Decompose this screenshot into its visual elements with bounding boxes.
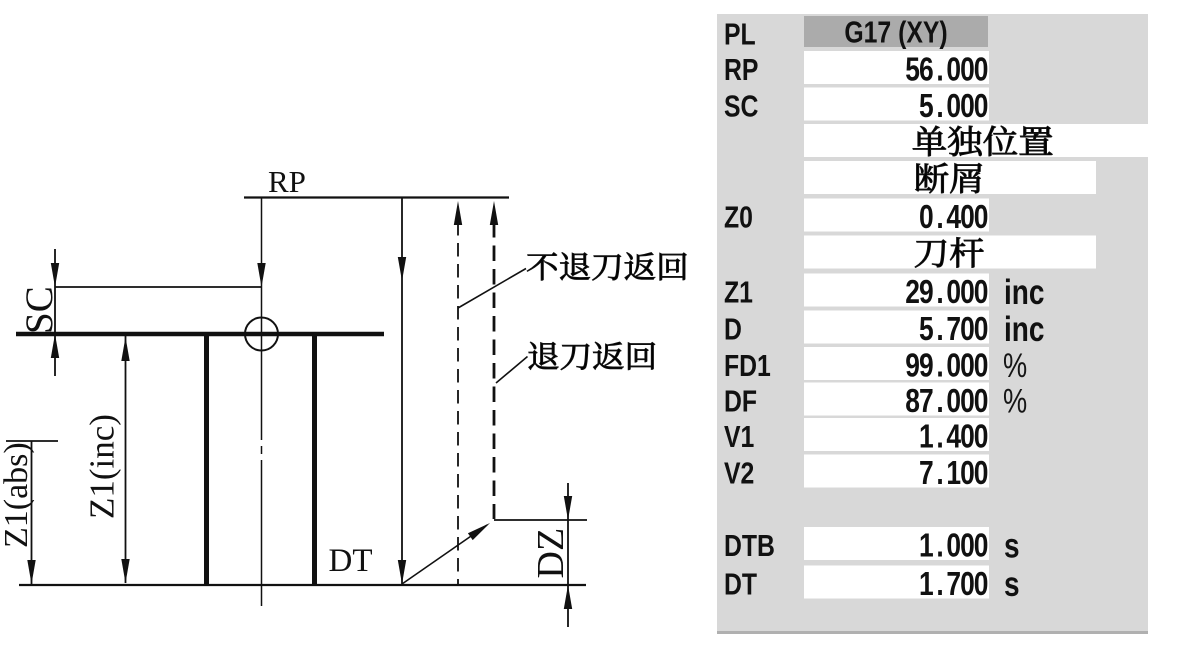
svg-text:SC: SC bbox=[724, 89, 758, 123]
svg-text:0: 0 bbox=[946, 52, 961, 88]
svg-text:0: 0 bbox=[974, 419, 989, 455]
svg-text:1: 1 bbox=[919, 419, 934, 455]
svg-text:9: 9 bbox=[905, 348, 920, 384]
svg-text:.: . bbox=[936, 311, 943, 347]
svg-text:4: 4 bbox=[946, 199, 961, 235]
svg-text:.: . bbox=[936, 566, 943, 602]
svg-text:0: 0 bbox=[960, 88, 975, 124]
svg-text:0: 0 bbox=[974, 528, 989, 564]
svg-text:0: 0 bbox=[946, 348, 961, 384]
svg-text:0: 0 bbox=[974, 274, 989, 310]
svg-text:8: 8 bbox=[905, 383, 920, 419]
svg-text:0: 0 bbox=[960, 528, 975, 564]
svg-text:0: 0 bbox=[960, 419, 975, 455]
svg-text:4: 4 bbox=[946, 419, 961, 455]
svg-text:0: 0 bbox=[960, 383, 975, 419]
svg-text:0: 0 bbox=[946, 274, 961, 310]
svg-text:9: 9 bbox=[919, 348, 934, 384]
svg-text:2: 2 bbox=[905, 274, 920, 310]
svg-text:DF: DF bbox=[724, 384, 757, 418]
svg-text:5: 5 bbox=[919, 311, 934, 347]
svg-text:0: 0 bbox=[960, 455, 975, 491]
svg-text:FD1: FD1 bbox=[724, 348, 771, 382]
svg-text:0: 0 bbox=[946, 528, 961, 564]
svg-text:PL: PL bbox=[724, 17, 756, 51]
svg-text:0: 0 bbox=[974, 566, 989, 602]
svg-text:5: 5 bbox=[905, 52, 920, 88]
svg-text:.: . bbox=[936, 348, 943, 384]
svg-text:0: 0 bbox=[974, 88, 989, 124]
svg-text:inc: inc bbox=[1004, 272, 1044, 312]
svg-text:V2: V2 bbox=[724, 456, 754, 490]
svg-text:7: 7 bbox=[946, 566, 961, 602]
svg-text:DTB: DTB bbox=[724, 528, 775, 562]
svg-text:0: 0 bbox=[919, 199, 934, 235]
svg-text:6: 6 bbox=[919, 52, 934, 88]
svg-text:RP: RP bbox=[724, 52, 758, 86]
svg-text:.: . bbox=[936, 419, 943, 455]
svg-text:inc: inc bbox=[1004, 309, 1044, 349]
svg-text:G17 (XY): G17 (XY) bbox=[844, 15, 947, 49]
svg-text:1: 1 bbox=[919, 566, 934, 602]
svg-text:7: 7 bbox=[946, 311, 961, 347]
svg-text:.: . bbox=[936, 52, 943, 88]
svg-text:DT: DT bbox=[724, 567, 757, 601]
svg-text:0: 0 bbox=[974, 348, 989, 384]
svg-text:0: 0 bbox=[974, 199, 989, 235]
svg-text:%: % bbox=[1003, 346, 1027, 385]
svg-text:DT: DT bbox=[329, 543, 373, 579]
svg-text:RP: RP bbox=[268, 164, 306, 199]
svg-text:.: . bbox=[936, 199, 943, 235]
svg-text:9: 9 bbox=[919, 274, 934, 310]
svg-text:Z0: Z0 bbox=[724, 200, 753, 234]
svg-text:D: D bbox=[724, 312, 742, 346]
svg-text:s: s bbox=[1004, 564, 1020, 604]
svg-text:.: . bbox=[936, 528, 943, 564]
svg-text:0: 0 bbox=[974, 311, 989, 347]
svg-text:0: 0 bbox=[960, 311, 975, 347]
svg-text:0: 0 bbox=[946, 88, 961, 124]
svg-text:0: 0 bbox=[946, 383, 961, 419]
svg-text:0: 0 bbox=[960, 52, 975, 88]
svg-text:0: 0 bbox=[974, 455, 989, 491]
svg-text:.: . bbox=[936, 88, 943, 124]
svg-text:0: 0 bbox=[960, 199, 975, 235]
svg-text:%: % bbox=[1003, 382, 1027, 421]
svg-text:Z1(inc): Z1(inc) bbox=[83, 414, 122, 519]
svg-text:0: 0 bbox=[974, 383, 989, 419]
svg-text:V1: V1 bbox=[724, 419, 754, 453]
svg-text:DZ: DZ bbox=[530, 528, 572, 579]
svg-text:Z1(abs): Z1(abs) bbox=[0, 442, 35, 548]
svg-text:.: . bbox=[936, 383, 943, 419]
svg-text:0: 0 bbox=[960, 348, 975, 384]
svg-text:1: 1 bbox=[946, 455, 961, 491]
svg-text:7: 7 bbox=[919, 455, 934, 491]
svg-text:.: . bbox=[936, 274, 943, 310]
svg-text:5: 5 bbox=[919, 88, 934, 124]
svg-text:s: s bbox=[1004, 525, 1020, 565]
svg-text:Z1: Z1 bbox=[724, 275, 753, 309]
svg-text:SC: SC bbox=[18, 286, 61, 334]
svg-text:7: 7 bbox=[919, 383, 934, 419]
svg-text:0: 0 bbox=[960, 274, 975, 310]
svg-text:1: 1 bbox=[919, 528, 934, 564]
svg-text:0: 0 bbox=[960, 566, 975, 602]
svg-text:0: 0 bbox=[974, 52, 989, 88]
svg-text:.: . bbox=[936, 455, 943, 491]
